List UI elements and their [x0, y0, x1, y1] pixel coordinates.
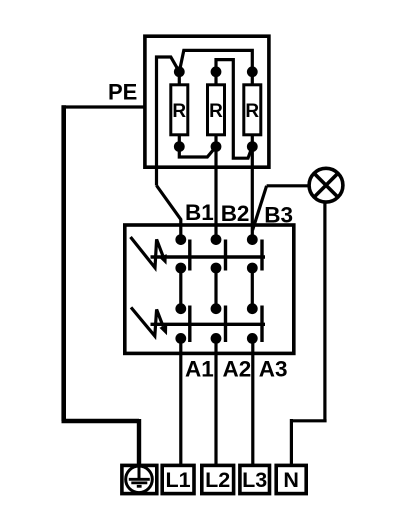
svg-text:N: N — [283, 468, 299, 492]
node A3 contact bottom — [247, 333, 258, 344]
wire PE drop to earth terminal — [137, 419, 141, 466]
contact bridge tick pole2 row2 — [224, 306, 227, 343]
wire A3 to L3 — [251, 338, 254, 465]
node A2 contact bottom — [211, 333, 222, 344]
svg-text:A1: A1 — [185, 357, 214, 382]
node row2 top contact 1 — [175, 303, 186, 314]
wire R2 top over and down between R2,R3 to R3 bottom — [216, 60, 252, 159]
terminal L1 box — [162, 465, 194, 493]
node row1 bottom contact 3 — [247, 263, 258, 274]
terminal L3 box — [240, 465, 270, 493]
wire A2 to L2 — [214, 338, 217, 465]
node row2 top contact 3 — [247, 303, 258, 314]
resistor bank enclosure box — [145, 36, 269, 167]
terminal PE earth box — [122, 465, 157, 493]
node B2 contact top — [211, 234, 222, 245]
wire lamp to B3 horizontal — [267, 184, 310, 187]
svg-text:B1: B1 — [185, 200, 214, 225]
wire pole1 between contact rows — [179, 268, 182, 309]
node R2 top — [211, 66, 222, 77]
node row2 top contact 2 — [211, 303, 222, 314]
wire R3 top stub — [251, 72, 254, 85]
wire lamp bottom vertical — [323, 202, 326, 421]
earth symbol stem — [138, 466, 141, 479]
svg-text:A2: A2 — [223, 357, 252, 382]
wire PE bottom horizontal — [62, 419, 140, 423]
node B3 contact top — [247, 234, 258, 245]
earth symbol bar long — [129, 478, 150, 481]
svg-text:R: R — [245, 101, 259, 122]
contact bridge tick pole2 row1 — [224, 240, 227, 271]
node row1 bottom contact 2 — [211, 263, 222, 274]
node R3 top — [247, 66, 258, 77]
resistor R2 — [208, 85, 225, 135]
wire internal left riser from R1 top to B1 exit — [157, 57, 180, 186]
wire R3 bottom stub — [251, 135, 254, 147]
lamp H1 indicator — [309, 168, 343, 202]
wire B1 from box exit diagonal — [157, 186, 181, 237]
actuator arrow row2 — [131, 307, 163, 336]
contact bridge tick pole1 row1 — [188, 240, 191, 271]
contact actuator bar row2 — [151, 323, 266, 326]
wire lamp diagonal down to B3 node — [253, 186, 267, 230]
wire B3 from R3 bottom to contactor — [251, 147, 254, 236]
earth terminal circle — [126, 466, 153, 493]
wire pole3 between contact rows — [251, 268, 254, 309]
resistor R1 — [171, 85, 188, 135]
terminal L2 box — [202, 465, 234, 493]
svg-text:L3: L3 — [242, 468, 267, 492]
svg-text:L1: L1 — [166, 468, 191, 492]
earth symbol bar mid — [131, 481, 147, 484]
contact bridge tick pole3 row1 — [260, 240, 263, 271]
node A1 contact bottom — [175, 333, 186, 344]
earth symbol bar short — [137, 485, 142, 488]
wire N drop to terminal — [290, 419, 293, 465]
svg-text:L2: L2 — [205, 468, 230, 492]
wire pole2 between contact rows — [214, 268, 217, 309]
wire R1 bottom stub — [178, 135, 181, 147]
svg-text:A3: A3 — [259, 357, 288, 382]
wire B2 from R2 bottom to contactor — [214, 147, 217, 236]
svg-text:R: R — [172, 101, 186, 122]
svg-text:B2: B2 — [221, 201, 250, 226]
wire R2 bottom stub — [214, 135, 217, 147]
wire R1 top to R3 top along y=50 — [179, 50, 252, 71]
contact bridge tick pole1 row2 — [188, 306, 191, 343]
node R2 bottom — [211, 141, 222, 152]
contact bridge tick pole3 row2 — [260, 306, 263, 343]
wire PE left vertical run — [61, 105, 66, 421]
node R1 top — [174, 66, 185, 77]
wire R1 bottom link to R2 bottom — [179, 147, 216, 157]
wire PE to resistor box — [62, 105, 145, 108]
node row1 bottom contact 1 — [175, 263, 186, 274]
node R3 bottom — [247, 141, 258, 152]
actuator arrow row1 — [131, 237, 163, 268]
wire R2 top stub — [214, 72, 217, 85]
contact actuator bar row1 — [151, 255, 266, 258]
wire N horizontal run — [291, 419, 326, 422]
terminal N box — [276, 465, 306, 493]
svg-text:PE: PE — [108, 79, 137, 104]
resistor R3 — [244, 85, 261, 135]
wire A1 to L1 — [179, 338, 182, 465]
contactor enclosure box — [125, 225, 294, 353]
wire R1 top stub — [178, 72, 181, 85]
node B1 contact top — [175, 234, 186, 245]
node R1 bottom — [174, 141, 185, 152]
svg-text:R: R — [209, 101, 223, 122]
